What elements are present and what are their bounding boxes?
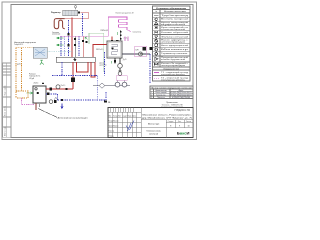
- inner drawing frame: [11, 5, 193, 138]
- pipe red boiler supply: [93, 45, 107, 58]
- valve V5: [74, 44, 76, 46]
- legend symbols column: [154, 15, 159, 65]
- heater top fittings: [111, 40, 113, 41]
- title block right section grid: [141, 120, 193, 138]
- svg-text:теплоноситель: теплоноситель: [161, 74, 185, 76]
- wire red riser x72: [71, 18, 73, 58]
- wire red riser x83: [82, 36, 84, 57]
- svg-text:Стадия: Стадия: [168, 121, 174, 123]
- signature scribble: [126, 121, 134, 132]
- floor heating coil W1: [54, 19, 65, 29]
- valve V13: [54, 100, 56, 103]
- pink dashed drain: [22, 98, 35, 105]
- drawing title: [146, 124, 161, 136]
- svg-text:10: 10: [187, 125, 189, 127]
- svg-text:теплоноситель: теплоноситель: [161, 79, 185, 81]
- legend pipe colour samples: [154, 72, 159, 74]
- thermometer green T2: [57, 44, 64, 46]
- wire blue dashed below manifold: [61, 62, 63, 75]
- svg-text:давления: давления: [100, 65, 107, 67]
- svg-text:Ду15: Ду15: [123, 59, 127, 61]
- svg-text:Фильтр сетчатый: Фильтр сетчатый: [161, 36, 188, 39]
- valve V3 on riser: [68, 44, 70, 46]
- indirect water heater B1: [107, 41, 122, 58]
- left stamp rotated labels: [4, 85, 7, 136]
- svg-text:электроприводом: электроприводом: [161, 65, 186, 67]
- wire blue dashed riser x68.5: [68, 20, 70, 57]
- address lines: [142, 114, 192, 120]
- thermometer green T1: [57, 37, 64, 39]
- meter stems: [118, 80, 125, 82]
- svg-text:Клапан обратный: Клапан обратный: [161, 31, 188, 34]
- pipe pink recirculation main: [60, 35, 108, 37]
- pump P2 circle: [139, 52, 143, 56]
- svg-text:Взам. инв №: Взам. инв №: [4, 106, 7, 116]
- stage grid text: [168, 121, 191, 128]
- CH component: [143, 47, 146, 50]
- svg-text:Изм: Изм: [108, 116, 111, 118]
- svg-text:Лист: Лист: [118, 116, 122, 118]
- svg-text:Плита газ.: Плита газ.: [157, 97, 165, 99]
- towel rail coil W2: [108, 17, 127, 30]
- boiler room wall (pale green): [89, 33, 104, 72]
- pipe red from tank: [46, 88, 73, 90]
- svg-text:Лист: Лист: [178, 121, 182, 123]
- CH pump group box: [134, 47, 147, 57]
- svg-text:Смеситель: Смеситель: [133, 32, 142, 34]
- svg-text:2: 2: [151, 95, 152, 97]
- svg-text:Наименование: Наименование: [155, 90, 166, 92]
- orange dashed duct bottom box: [16, 91, 28, 98]
- distribution manifold M1: [56, 57, 95, 62]
- svg-text:Инв № подл.: Инв № подл.: [4, 125, 7, 136]
- drain arrow D1: [54, 97, 57, 100]
- red bypass U1: [77, 62, 89, 72]
- svg-text:БаксИ: БаксИ: [177, 132, 190, 136]
- blue dashed v x106: [105, 92, 107, 100]
- svg-text:Автономная канализация: Автономная канализация: [58, 116, 88, 119]
- svg-text:ду25: ду25: [17, 64, 21, 66]
- green feed arrow into tank: [27, 92, 34, 94]
- red bypass U2: [91, 62, 95, 77]
- title block small row labels: [108, 115, 136, 138]
- svg-text:ГВ25х3,5: ГВ25х3,5: [101, 30, 109, 32]
- valve XB: [104, 101, 107, 103]
- blue dashed drop x97.6: [97, 75, 99, 99]
- valve V6: [82, 40, 84, 42]
- svg-text:Трубопровод: Трубопровод: [161, 15, 188, 17]
- valve V11: [50, 88, 53, 91]
- pump P5 bottom: [49, 100, 53, 104]
- svg-text:Дата: Дата: [132, 116, 136, 118]
- svg-text:отопления: отопления: [52, 34, 60, 36]
- manifold diamond: [73, 58, 76, 61]
- wire dark riser x75: [74, 36, 76, 57]
- svg-text:25х3,5: 25х3,5: [61, 85, 66, 87]
- svg-text:25х3,5: 25х3,5: [124, 38, 129, 40]
- svg-text:Ø DN32 ПНД ПЭ100: Ø DN32 ПНД ПЭ100: [172, 97, 190, 99]
- pipe to CH pump: [122, 53, 150, 55]
- pink box over meters: [116, 76, 127, 81]
- svg-text:Манометр: Манометр: [161, 49, 188, 51]
- towel valve column: [120, 30, 122, 41]
- tank bottom stub red: [35, 103, 37, 110]
- title block left grid: [108, 108, 141, 138]
- svg-text:Тепловая схема: Тепловая схема: [146, 131, 161, 133]
- mixer stub: [127, 30, 131, 32]
- svg-text:Радиатор: Радиатор: [51, 12, 61, 14]
- wire blue dashed from radiator: [82, 14, 84, 37]
- pipe pink boiler top riser: [125, 36, 128, 41]
- svg-text:Наименование: Наименование: [164, 11, 186, 13]
- svg-text:Тнар=-28°С: Тнар=-28°С: [14, 44, 24, 46]
- valve V7: [86, 41, 88, 43]
- svg-text:Насос циркуляционный: Насос циркуляционный: [161, 44, 188, 47]
- svg-text:Полотенцесушитель М: Полотенцесушитель М: [116, 13, 134, 15]
- left margin stamp table: [3, 63, 11, 137]
- boiler bottom valve: [114, 58, 116, 64]
- svg-text:9: 9: [179, 125, 180, 127]
- svg-text:Оборудование труб: Оборудование труб: [163, 69, 179, 71]
- radiator valve: [78, 12, 80, 14]
- svg-text:Утверд: Утверд: [108, 135, 113, 137]
- pump P4: [56, 85, 60, 89]
- legend table: [153, 6, 191, 81]
- pump P3 on return: [71, 78, 75, 82]
- pipe red boiler top riser: [111, 36, 113, 41]
- leader line: [38, 109, 57, 118]
- svg-text:сгоном вентильный: сгоном вентильный: [161, 28, 185, 31]
- wire blue dashed riser x64: [63, 36, 65, 57]
- svg-text:3: 3: [151, 97, 152, 99]
- svg-text:Условные обозначения: Условные обозначения: [156, 7, 187, 10]
- expansion tank E1: [118, 64, 123, 69]
- svg-text:Иванов: Иванов: [113, 121, 118, 123]
- orange dashed duct top: [16, 47, 33, 49]
- sizes table: [150, 86, 193, 99]
- valve V8: [120, 31, 122, 33]
- blue dashed drop right: [149, 54, 151, 84]
- tank gauge: [35, 88, 37, 90]
- valve V14: [61, 99, 63, 101]
- svg-text:электроприводом: электроприводом: [161, 42, 186, 44]
- wire pipe T1 radiator supply: [65, 12, 88, 18]
- svg-text:Монтаж труб: Монтаж труб: [148, 124, 159, 126]
- svg-text:Датчик: Датчик: [100, 63, 105, 65]
- svg-text:дер. Михайловская, СНТ "Вишенк: дер. Михайловская, СНТ "Вишенка", уч. 75: [142, 116, 192, 119]
- outer sheet border: [2, 2, 197, 139]
- blue dashed from tank: [46, 94, 58, 100]
- blue dashed main horizontal: [52, 74, 98, 76]
- water meter M3: [122, 82, 127, 87]
- air handling unit AHU: [33, 47, 47, 58]
- svg-text:№: №: [155, 10, 157, 13]
- svg-text:муфтовый: муфтовый: [161, 23, 185, 26]
- sensor green arrow G3: [85, 37, 88, 39]
- green dot at boiler bottom: [110, 61, 112, 63]
- wire blue dashed riser x61: [60, 36, 62, 57]
- blue dashed v x104.5: [104, 52, 106, 75]
- fitting marks: [66, 88, 68, 90]
- buffer tank B2: [33, 86, 46, 103]
- svg-text:ХВ25х3,5: ХВ25х3,5: [96, 49, 103, 51]
- cold water inlet line: [93, 85, 130, 87]
- valve V12: [47, 93, 49, 96]
- svg-text:Подп. и дата: Подп. и дата: [5, 85, 7, 95]
- svg-text:25х3,5: 25х3,5: [34, 83, 39, 85]
- svg-text:ГУВД2019-ТМ: ГУВД2019-ТМ: [174, 109, 190, 112]
- svg-text:Московская область, Раменский: Московская область, Раменский район,: [143, 114, 193, 117]
- blue dashed bottom main: [58, 99, 107, 101]
- green tick at towel valves: [117, 32, 119, 35]
- svg-text:Петров: Петров: [113, 125, 118, 127]
- radiator AT1: [63, 10, 78, 16]
- orange dashed duct v2: [21, 48, 23, 91]
- air vent AV1 above radiator: [74, 6, 76, 10]
- legend row texts: [161, 15, 189, 82]
- svg-text:Термометр показыв.: Термометр показыв.: [161, 53, 189, 55]
- wire blue dashed riser x79: [78, 36, 80, 57]
- svg-text:котельной: котельной: [149, 133, 158, 136]
- safety group circle: [118, 72, 122, 76]
- svg-text:Колонка газ.: Колонка газ.: [156, 95, 166, 97]
- svg-text:1: 1: [151, 92, 152, 94]
- svg-text:СН: СН: [135, 50, 139, 52]
- pipe red return with pump: [72, 62, 74, 89]
- svg-text:Н.контр: Н.контр: [108, 130, 114, 132]
- wall sleeve: [149, 47, 152, 50]
- valve V4: [74, 38, 76, 40]
- filter F1 diamond: [99, 83, 105, 88]
- svg-text:Вентиль запорный: Вентиль запорный: [161, 17, 188, 20]
- drain arrow D2: [61, 104, 64, 109]
- cyan dashed duct to right: [47, 51, 72, 53]
- pipe pink riser to towel rail: [107, 17, 109, 37]
- svg-text:клапан пружинный: клапан пружинный: [161, 58, 185, 61]
- svg-text:Ø DN20 ПНД ПЭ100 SDR11: Ø DN20 ПНД ПЭ100 SDR11: [171, 92, 192, 94]
- svg-text:Ø DN25 ПНД ПЭ100 SDR11: Ø DN25 ПНД ПЭ100 SDR11: [171, 95, 192, 97]
- valve V10: [120, 38, 122, 40]
- svg-text:Листов: Листов: [186, 121, 191, 123]
- valve V9: [120, 34, 122, 36]
- water meter M2: [115, 82, 120, 87]
- title block frame: [108, 108, 193, 138]
- tank bottom stub gray: [39, 103, 41, 107]
- orange dashed duct v1: [15, 48, 17, 98]
- heater inner coil: [112, 44, 118, 54]
- valve V2 on riser: [68, 33, 70, 35]
- green person glyph: [40, 60, 44, 65]
